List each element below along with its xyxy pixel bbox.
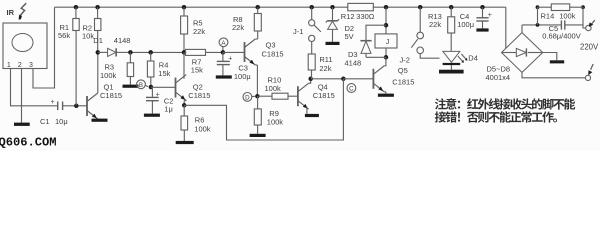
node row-R4 bbox=[148, 50, 153, 55]
svg-text:R12: R12 bbox=[341, 12, 355, 21]
node rail-J bbox=[384, 5, 389, 10]
resistor R2 bbox=[82, 7, 101, 52]
wire Q4 emitter down bbox=[306, 107, 308, 114]
ground C2 bbox=[144, 114, 160, 117]
wire feedback Q2E to Q5 base node bbox=[184, 79, 343, 140]
Q3 label bbox=[262, 41, 284, 59]
svg-text:J-2: J-2 bbox=[400, 56, 410, 65]
svg-text:22k: 22k bbox=[319, 64, 331, 73]
wire bridge top up bbox=[521, 25, 523, 33]
wire Q2 collector up bbox=[183, 52, 185, 78]
svg-text:330Ω: 330Ω bbox=[356, 12, 375, 21]
svg-text:+: + bbox=[51, 99, 55, 106]
svg-text:C1815: C1815 bbox=[313, 91, 335, 100]
node C5 drop junction bbox=[536, 5, 585, 27]
ground D4 bbox=[439, 70, 464, 74]
ground R3 bbox=[123, 85, 139, 88]
svg-text:5V: 5V bbox=[345, 32, 354, 41]
svg-text:J: J bbox=[386, 39, 390, 46]
ground R6 bbox=[176, 141, 194, 144]
node rail-J1 bbox=[309, 5, 314, 10]
AC terminal lower bbox=[585, 64, 593, 81]
wire Q1 collector up bbox=[97, 52, 99, 93]
svg-text:R5: R5 bbox=[193, 18, 203, 27]
Q606.COM watermark bbox=[0, 136, 57, 150]
J-2 label bbox=[400, 56, 410, 65]
svg-text:J-1: J-1 bbox=[293, 27, 303, 36]
wire Q3 collector up bbox=[255, 38, 257, 40]
svg-text:1μ: 1μ bbox=[164, 105, 173, 114]
svg-text:C1815: C1815 bbox=[262, 49, 284, 58]
resistor R8 bbox=[232, 7, 261, 39]
svg-text:22k: 22k bbox=[232, 23, 244, 32]
transistor Q1 bbox=[87, 93, 98, 119]
capacitor C1 bbox=[40, 99, 76, 126]
resistor R9 bbox=[254, 96, 283, 134]
wire Q5 emitter down bbox=[384, 92, 386, 94]
node Q2E-R6 bbox=[182, 103, 187, 108]
node A junction bbox=[221, 50, 226, 55]
svg-text:220V: 220V bbox=[580, 42, 599, 51]
svg-text:15k: 15k bbox=[158, 69, 170, 78]
svg-text:Q3: Q3 bbox=[266, 41, 276, 50]
node C bbox=[347, 84, 356, 93]
svg-text:Q5: Q5 bbox=[398, 66, 408, 75]
svg-text:100μ: 100μ bbox=[234, 72, 251, 81]
svg-text:22k: 22k bbox=[193, 27, 205, 36]
svg-text:100k: 100k bbox=[267, 118, 284, 127]
pin 2 label bbox=[18, 62, 22, 69]
svg-text:D5~D8: D5~D8 bbox=[487, 64, 511, 73]
LED D4 bbox=[443, 51, 478, 69]
svg-text:100k: 100k bbox=[100, 71, 117, 80]
svg-text:R9: R9 bbox=[269, 109, 279, 118]
wire top rail right section bbox=[373, 6, 506, 8]
ground R9 bbox=[250, 134, 266, 137]
wire Q1 base bbox=[78, 105, 87, 107]
ground Q4 bbox=[305, 114, 319, 117]
svg-text:B: B bbox=[139, 82, 143, 89]
wire row R4 to R7 bbox=[151, 51, 186, 53]
resistor R10 bbox=[257, 76, 298, 100]
J-1 label bbox=[293, 27, 303, 36]
AC terminal upper bbox=[586, 20, 595, 30]
wire row to Q5 base bbox=[343, 78, 373, 80]
ground bridge bbox=[550, 60, 564, 63]
node rail-R13 bbox=[449, 5, 454, 10]
node rail-R5 bbox=[182, 5, 187, 10]
svg-text:R6: R6 bbox=[195, 116, 205, 125]
resistor R11 bbox=[308, 54, 332, 79]
node D bbox=[243, 93, 255, 102]
resistor R14 bbox=[538, 4, 584, 21]
svg-text:IR: IR bbox=[7, 8, 15, 17]
node feedback junction bbox=[341, 77, 346, 82]
transistor Q4 bbox=[298, 83, 309, 109]
svg-text:100k: 100k bbox=[194, 125, 211, 134]
svg-text:100μ: 100μ bbox=[457, 20, 474, 29]
node rail-R1 bbox=[74, 5, 79, 10]
wire Q3 emitter down bbox=[255, 65, 257, 96]
node rail-C4 bbox=[480, 5, 485, 10]
capacitor C4 bbox=[457, 7, 492, 29]
svg-text:100k: 100k bbox=[559, 12, 576, 21]
svg-text:3: 3 bbox=[29, 62, 33, 69]
wire Q4 collector up bbox=[309, 79, 311, 83]
svg-text:56k: 56k bbox=[58, 31, 70, 40]
svg-text:22k: 22k bbox=[429, 20, 441, 29]
ground D2 bbox=[326, 42, 340, 45]
wire pin3 to rail bbox=[33, 7, 55, 88]
wire D3 top connector bbox=[366, 25, 386, 41]
capacitor C5 bbox=[542, 20, 583, 40]
svg-text:C1: C1 bbox=[40, 117, 50, 126]
svg-text:R14: R14 bbox=[541, 12, 555, 21]
wire top +V rail left section bbox=[55, 6, 348, 8]
svg-text:0.68μ/400V: 0.68μ/400V bbox=[542, 32, 581, 41]
wire rail right drop to bridge bbox=[505, 7, 507, 48]
svg-text:4001x4: 4001x4 bbox=[486, 73, 511, 82]
svg-text:R11: R11 bbox=[319, 55, 332, 64]
diode D3 bbox=[345, 41, 372, 68]
svg-text:10μ: 10μ bbox=[55, 117, 68, 126]
pin 1 label bbox=[7, 62, 11, 69]
node B junction bbox=[149, 85, 154, 90]
relay contact J-2 bbox=[411, 7, 439, 58]
resistor R6 bbox=[181, 105, 211, 141]
resistor R12 bbox=[341, 3, 375, 21]
wire to AC terminal upper bbox=[583, 7, 586, 28]
node D3 top junction bbox=[384, 23, 389, 28]
wire Q5 collector up bbox=[384, 57, 386, 66]
svg-text:4148: 4148 bbox=[345, 58, 362, 67]
zener diode D2 bbox=[326, 7, 354, 42]
note text line 2 bbox=[435, 111, 557, 122]
node D junction bbox=[255, 94, 260, 99]
wire J box bottom bbox=[385, 48, 387, 57]
node C1-R1-Q1 junction bbox=[74, 104, 79, 109]
wire Q2 emitter down bbox=[184, 101, 186, 106]
wire C5 drop bbox=[537, 7, 539, 25]
wire C5 row bbox=[522, 24, 561, 26]
Q4 label bbox=[313, 83, 335, 101]
resistor R5 bbox=[181, 7, 206, 52]
svg-text:C1815: C1815 bbox=[188, 91, 210, 100]
Q1 label bbox=[100, 83, 122, 101]
wire rail to J box bbox=[385, 7, 387, 34]
node Q4C-R11 bbox=[308, 77, 313, 82]
resistor R1 bbox=[58, 7, 79, 106]
note text line 1 bbox=[435, 98, 575, 109]
svg-text:D: D bbox=[245, 95, 250, 102]
resistor R4 bbox=[147, 52, 170, 87]
wire D1 row to R4 bbox=[130, 51, 150, 53]
capacitor C3 bbox=[217, 52, 251, 81]
node rail-R2 bbox=[95, 5, 100, 10]
transistor Q3 bbox=[245, 39, 256, 65]
node J bottom junction bbox=[384, 55, 389, 60]
wire D3 bottom connector bbox=[366, 56, 386, 58]
svg-text:C1815: C1815 bbox=[392, 77, 414, 86]
IR signal arrow bbox=[19, 3, 27, 19]
Q2 label bbox=[188, 82, 210, 100]
IR label bbox=[7, 8, 15, 17]
svg-text:4148: 4148 bbox=[114, 36, 131, 45]
svg-text:C: C bbox=[349, 86, 354, 93]
IR receiver lens bbox=[12, 34, 33, 52]
Q5 label bbox=[392, 66, 414, 86]
resistor R13 bbox=[428, 7, 455, 51]
svg-text:D4: D4 bbox=[468, 53, 478, 62]
relay contact J-1 bbox=[309, 7, 321, 54]
ground C3 bbox=[216, 75, 232, 78]
wire B row to Q2 base bbox=[151, 86, 176, 88]
resistor R7 bbox=[186, 49, 223, 74]
ground C4 bbox=[476, 28, 488, 31]
diode D1 bbox=[93, 36, 130, 57]
transistor Q5 bbox=[373, 66, 384, 92]
capacitor C2 bbox=[146, 87, 173, 114]
svg-text:15k: 15k bbox=[191, 65, 203, 74]
node B bbox=[137, 80, 148, 89]
node rail-D2 bbox=[330, 5, 335, 10]
node row-R3 bbox=[128, 50, 133, 55]
bridge rectifier D5-D8 bbox=[486, 33, 543, 82]
pin 3 label bbox=[29, 62, 33, 69]
svg-text:1: 1 bbox=[7, 62, 11, 69]
wire Q4C row bbox=[311, 78, 344, 80]
node rail-R8 bbox=[255, 5, 260, 10]
svg-text:2: 2 bbox=[18, 62, 22, 69]
resistor R3 bbox=[100, 52, 134, 84]
220V label bbox=[580, 42, 599, 51]
ground Q1 emitter bbox=[92, 119, 108, 122]
wire pin1 to C1 row bbox=[11, 69, 58, 106]
node R2-Q1C-D1 bbox=[96, 50, 101, 55]
node A bbox=[219, 38, 228, 53]
wire bridge right to ground bbox=[543, 53, 557, 61]
transistor Q2 bbox=[176, 75, 187, 101]
node rail-J2 bbox=[418, 5, 423, 10]
wire D1 row left bbox=[98, 51, 108, 53]
wire A to Q3 base bbox=[223, 51, 245, 53]
relay J box bbox=[375, 34, 397, 48]
ground pin2 bbox=[14, 123, 30, 126]
svg-text:Q606.COM: Q606.COM bbox=[0, 136, 57, 150]
ground Q5 bbox=[378, 94, 394, 97]
svg-text:D1: D1 bbox=[93, 36, 103, 45]
wire bridge bottom to AC terminal lower bbox=[522, 72, 585, 77]
node R5-R7-Q2C bbox=[182, 50, 187, 55]
wire pin2 down bbox=[21, 69, 23, 123]
svg-text:100k: 100k bbox=[265, 84, 282, 93]
IR receiver box bbox=[3, 23, 47, 69]
svg-text:C1815: C1815 bbox=[100, 91, 122, 100]
